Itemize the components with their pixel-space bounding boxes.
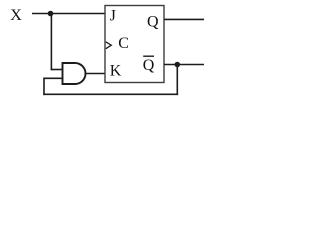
wire Q output — [164, 18, 204, 20]
overline of Q-bar — [143, 55, 154, 57]
wire X to J input — [32, 13, 105, 15]
wire upper AND input — [51, 69, 63, 71]
svg-text:K: K — [110, 63, 122, 80]
clock triangle on C input — [106, 42, 112, 49]
wire feedback right vertical — [176, 65, 178, 96]
wire Q-bar output — [164, 64, 204, 66]
wire AND output to K input — [86, 73, 105, 75]
junction dot on X wire — [48, 11, 54, 17]
svg-text:Q: Q — [147, 14, 159, 31]
junction dot on Q-bar wire — [175, 62, 181, 68]
wire feedback left vertical — [43, 78, 45, 96]
wire lower AND input — [44, 77, 63, 79]
wire vertical drop from X junction — [50, 14, 52, 71]
wire feedback bottom rail — [43, 93, 178, 95]
and-gate G1 — [63, 63, 86, 84]
svg-text:C: C — [118, 35, 129, 52]
svg-text:X: X — [10, 7, 22, 24]
svg-text:J: J — [110, 8, 116, 25]
svg-text:Q: Q — [143, 57, 155, 74]
flip-flop U1 box — [105, 6, 164, 83]
